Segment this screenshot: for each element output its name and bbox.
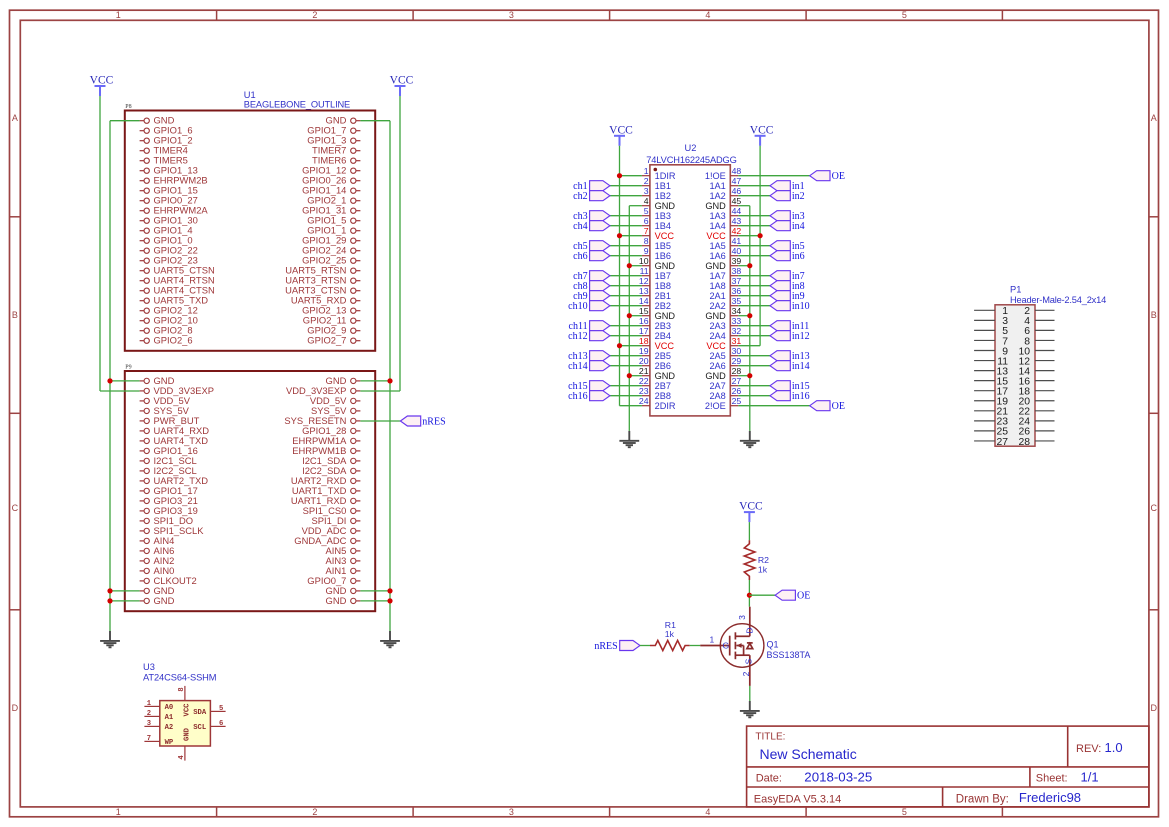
svg-text:3: 3 xyxy=(644,186,649,196)
svg-text:39: 39 xyxy=(732,256,742,266)
svg-text:1B8: 1B8 xyxy=(655,281,671,291)
P1 pin 16 xyxy=(1018,376,1054,387)
net label ch15 xyxy=(568,381,610,392)
U2 left pin 20 2B6 xyxy=(639,356,671,371)
svg-text:2A7: 2A7 xyxy=(709,381,725,391)
wire U2 VCC rail to pin 31 VCC xyxy=(738,345,760,347)
power flag VCC right of U2 xyxy=(750,124,774,146)
svg-text:32: 32 xyxy=(732,326,742,336)
U2 right pin 36 2A1 xyxy=(709,286,741,301)
svg-text:1B7: 1B7 xyxy=(655,271,671,281)
U2 pin-1 indicator dot xyxy=(654,168,658,172)
wire ch8 to U2 pin 12 xyxy=(610,285,642,287)
wire nRES flag to R1 xyxy=(640,645,650,647)
U1 P8 right pin TIMER7 xyxy=(312,145,360,156)
P1 pin 10 xyxy=(1018,346,1054,357)
P1 pin 19 xyxy=(974,397,1008,408)
sheet column labels top xyxy=(116,10,907,20)
net label ch8 xyxy=(573,281,610,292)
svg-text:28: 28 xyxy=(732,366,742,376)
wire U2 VCC rail to pin 1 1DIR xyxy=(620,175,642,177)
U1 P9 right pin SYS_5V xyxy=(311,405,360,416)
U1 P8 right pin GPIO2_11 xyxy=(303,315,361,326)
U2 left pin 10 GND xyxy=(639,256,675,271)
wire left GND rail vertical xyxy=(109,121,111,631)
svg-text:1.0: 1.0 xyxy=(1105,740,1123,755)
svg-text:1A8: 1A8 xyxy=(709,281,725,291)
svg-text:1B2: 1B2 xyxy=(655,191,671,201)
wire P8 left GND pin to left GND rail xyxy=(110,120,140,122)
svg-text:VCC: VCC xyxy=(183,703,191,717)
svg-text:GND: GND xyxy=(183,727,191,741)
svg-text:P8: P8 xyxy=(125,104,131,110)
svg-text:WP: WP xyxy=(165,739,174,747)
wire U2 GND rail to pin 15 xyxy=(629,315,642,317)
U3 left pin 7 WP xyxy=(144,735,174,747)
P1 pin 1 xyxy=(974,306,1008,317)
svg-text:5: 5 xyxy=(902,10,907,20)
svg-text:18: 18 xyxy=(639,336,649,346)
svg-text:29: 29 xyxy=(732,356,742,366)
U2 right pin 40 1A6 xyxy=(709,246,741,261)
wire right GND rail vertical xyxy=(389,121,391,631)
svg-text:2: 2 xyxy=(147,710,151,718)
title block row divider 2 xyxy=(747,786,1149,788)
U1 P8 left pin GPIO2_8 xyxy=(140,325,193,336)
U1 P8 right pin GPIO1_1 xyxy=(307,225,360,236)
U1 P9 right pin EHRPWM1A xyxy=(292,435,360,446)
net label ch13 xyxy=(568,351,610,362)
U2 right pin 47 1A1 xyxy=(709,176,741,191)
svg-text:25: 25 xyxy=(732,396,742,406)
wire in9 from U2 pin 36 xyxy=(738,295,770,297)
svg-text:2A6: 2A6 xyxy=(709,361,725,371)
svg-text:GND: GND xyxy=(655,311,676,321)
U2 right pin 30 2A5 xyxy=(709,346,741,361)
U1 P9 right pin VDD_5V xyxy=(310,395,360,406)
wire ch1 to U2 pin 2 xyxy=(610,185,642,187)
P1 pin 21 xyxy=(974,407,1008,418)
sheet border row ticks left xyxy=(10,217,21,610)
svg-text:GPIO2_7: GPIO2_7 xyxy=(307,335,346,346)
U1 P9 right pin GPIO0_7 xyxy=(307,575,360,586)
U1 P9 right pin EHRPWM1B xyxy=(292,445,360,456)
U1 P9 right pin VDD_ADC xyxy=(302,525,361,536)
U1 P8 right pin GPIO1_12 xyxy=(302,165,360,176)
wire in14 from U2 pin 29 xyxy=(738,365,770,367)
svg-text:2018-03-25: 2018-03-25 xyxy=(804,770,872,785)
svg-text:10: 10 xyxy=(639,256,649,266)
svg-text:VCC: VCC xyxy=(609,124,633,136)
junction U2 right GND rail at pin 34 xyxy=(747,313,752,318)
net label in2 xyxy=(770,191,805,202)
wire left GND rail to P9 left GND pin xyxy=(110,380,140,382)
U1 P9 left pin SPI1_SCLK xyxy=(140,525,205,536)
U1 P8 left pin GPIO1_15 xyxy=(140,185,198,196)
U2 right pin 48 1!OE xyxy=(705,166,742,181)
P1 pin 28 xyxy=(1018,437,1054,448)
svg-text:1B6: 1B6 xyxy=(655,251,671,261)
wire in13 from U2 pin 30 xyxy=(738,355,770,357)
svg-text:1: 1 xyxy=(116,807,121,817)
net label OE bottom xyxy=(810,401,845,412)
title block DrawnBy divider xyxy=(942,787,944,807)
wire VCC right rail down to P9 VDD_3V3EXP row xyxy=(399,96,401,391)
net label in10 xyxy=(770,301,810,312)
U1 P8 left pin GPIO1_2 xyxy=(140,135,193,146)
svg-text:GND: GND xyxy=(655,201,676,211)
svg-text:1!OE: 1!OE xyxy=(705,171,726,181)
junction right GND rail at P9 GND 45 xyxy=(387,588,392,593)
U1 P8 left pin EHRPWM2B xyxy=(140,175,208,186)
wire U2 GND rail to pin 34 xyxy=(738,315,750,317)
svg-text:2: 2 xyxy=(741,671,751,676)
sheet row labels left xyxy=(12,113,19,713)
net flag nRES at U1 SYS_RESETN xyxy=(360,420,400,422)
P1 pin 24 xyxy=(1018,417,1054,428)
junction U2 right VCC rail at pin 42 xyxy=(758,233,763,238)
svg-text:38: 38 xyxy=(732,266,742,276)
U2 left pin 5 1B3 xyxy=(642,206,671,221)
U1 P8 right pin UART3_RTSN xyxy=(285,275,360,286)
svg-text:VCC: VCC xyxy=(90,75,114,87)
wire in4 from U2 pin 43 xyxy=(738,225,770,227)
svg-text:VCC: VCC xyxy=(706,341,726,351)
svg-text:7: 7 xyxy=(644,226,649,236)
svg-text:48: 48 xyxy=(732,166,742,176)
net label in8 xyxy=(770,281,805,292)
wire ch13 to U2 pin 19 xyxy=(610,355,642,357)
U1 P9 right pin UART1_TXD xyxy=(292,485,361,496)
wire U2 pin 48 1!OE to OE flag xyxy=(738,175,809,177)
net label ch11 xyxy=(569,321,610,332)
U2 right pin 28 GND xyxy=(705,366,741,381)
svg-text:2A5: 2A5 xyxy=(709,351,725,361)
svg-text:21: 21 xyxy=(639,366,649,376)
svg-text:2A2: 2A2 xyxy=(709,301,725,311)
U3 bottom pin 4 GND xyxy=(178,727,191,760)
svg-text:in12: in12 xyxy=(792,331,810,342)
svg-text:1: 1 xyxy=(147,700,152,708)
svg-text:U2: U2 xyxy=(685,143,697,153)
wire ch6 to U2 pin 9 xyxy=(610,255,642,257)
net label OE at Q1 xyxy=(775,590,810,601)
ground symbol below Q1 xyxy=(740,701,760,717)
svg-text:GND: GND xyxy=(655,261,676,271)
svg-text:31: 31 xyxy=(732,336,742,346)
net label in5 xyxy=(770,241,805,252)
svg-text:1B5: 1B5 xyxy=(655,241,671,251)
wire U2 VCC rail to pin 42 VCC xyxy=(738,235,760,237)
U1 P9 right pin I2C1_SDA xyxy=(302,455,360,466)
svg-text:in4: in4 xyxy=(792,221,805,232)
svg-text:ch4: ch4 xyxy=(573,221,587,232)
wire ch5 to U2 pin 8 xyxy=(610,245,642,247)
net label ch3 xyxy=(573,211,610,222)
wire in2 from U2 pin 46 xyxy=(738,195,770,197)
svg-text:GND: GND xyxy=(655,371,676,381)
P1 pin 27 xyxy=(974,437,1008,448)
U1 P9 left pin GPIO3_21 xyxy=(140,495,198,506)
wire U2 pin 25 2!OE to OE flag xyxy=(738,405,809,407)
svg-text:6: 6 xyxy=(219,720,223,728)
U1 P8 right pin GPIO2_25 xyxy=(302,255,360,266)
svg-text:A0: A0 xyxy=(165,704,174,712)
net label ch2 xyxy=(573,191,610,202)
net label ch6 xyxy=(573,251,610,262)
svg-text:VCC: VCC xyxy=(706,231,726,241)
U2 right pin 29 2A6 xyxy=(709,356,741,371)
power flag VCC above R2 xyxy=(739,501,763,522)
P1 pin 11 xyxy=(974,356,1008,367)
svg-text:in6: in6 xyxy=(792,251,805,262)
svg-text:GND: GND xyxy=(705,261,726,271)
resistor R1 xyxy=(650,640,690,650)
svg-text:8: 8 xyxy=(178,687,186,691)
wire ch9 to U2 pin 13 xyxy=(610,295,642,297)
svg-text:4: 4 xyxy=(178,755,186,760)
wire U2 GND rail to pin 4 xyxy=(629,205,642,207)
svg-text:1k: 1k xyxy=(665,629,675,639)
U2 right pin 46 1A2 xyxy=(709,186,741,201)
svg-text:8: 8 xyxy=(644,236,649,246)
svg-text:in2: in2 xyxy=(792,191,805,202)
svg-text:27: 27 xyxy=(996,437,1008,448)
U2 left pin 8 1B5 xyxy=(642,236,671,251)
svg-text:22: 22 xyxy=(639,376,649,386)
svg-text:4: 4 xyxy=(705,10,710,20)
svg-text:ch16: ch16 xyxy=(568,391,587,402)
svg-text:74LVCH162245ADGG: 74LVCH162245ADGG xyxy=(646,155,736,165)
title block REV divider xyxy=(1067,726,1069,767)
U1 P9 right pin AIN3 xyxy=(326,555,361,566)
svg-text:46: 46 xyxy=(732,186,742,196)
svg-text:D: D xyxy=(12,703,19,713)
U2 right pin 39 GND xyxy=(705,256,741,271)
U1 P9 left pin VDD_3V3EXP xyxy=(140,385,214,396)
U1 P8 left pin GPIO1_30 xyxy=(140,215,198,226)
U1 P9 left pin GND xyxy=(140,375,175,386)
svg-text:OE: OE xyxy=(832,171,845,182)
wire ch4 to U2 pin 6 xyxy=(610,225,642,227)
U2 right pin 32 2A4 xyxy=(709,326,741,341)
svg-text:26: 26 xyxy=(732,386,742,396)
U2 left pin 13 2B1 xyxy=(639,286,671,301)
svg-text:Frederic98: Frederic98 xyxy=(1019,790,1081,805)
svg-text:14: 14 xyxy=(639,296,649,306)
svg-text:7: 7 xyxy=(147,735,151,743)
svg-text:REV:: REV: xyxy=(1076,743,1101,755)
U1 P8 left pin GPIO1_6 xyxy=(140,125,193,136)
U2 right pin 38 1A7 xyxy=(709,266,741,281)
power flag VCC right of U1 xyxy=(390,75,414,97)
svg-text:VCC: VCC xyxy=(739,501,763,513)
wire in10 from U2 pin 35 xyxy=(738,305,770,307)
U2 left pin 19 2B5 xyxy=(639,346,671,361)
wire ch14 to U2 pin 20 xyxy=(610,365,642,367)
wire VCC to R2 top xyxy=(748,522,750,540)
svg-text:ch6: ch6 xyxy=(573,251,587,262)
net label in9 xyxy=(770,291,805,302)
title block outline xyxy=(747,726,1149,807)
svg-text:6: 6 xyxy=(644,216,649,226)
svg-text:3: 3 xyxy=(509,10,514,20)
U1 P8 right pin GPIO2_13 xyxy=(302,305,360,316)
wire U2 GND rail to pin 10 xyxy=(629,265,642,267)
U1 P9 right pin GND xyxy=(326,585,361,596)
U1 P8 right pin GPIO1_29 xyxy=(302,235,360,246)
P1 pin 25 xyxy=(974,427,1008,438)
svg-text:2A1: 2A1 xyxy=(709,291,725,301)
svg-text:1A1: 1A1 xyxy=(709,181,725,191)
svg-text:3: 3 xyxy=(147,720,151,728)
svg-text:4: 4 xyxy=(705,807,710,817)
svg-text:New Schematic: New Schematic xyxy=(760,746,857,762)
svg-text:VCC: VCC xyxy=(655,231,675,241)
U2 left pin 6 1B4 xyxy=(642,216,671,231)
ground symbol below U2 left xyxy=(619,431,639,447)
net label in16 xyxy=(770,391,810,402)
svg-text:P1: P1 xyxy=(1010,285,1021,295)
junction U2 left GND rail at pin 10 xyxy=(627,263,632,268)
P1 pin 13 xyxy=(974,366,1008,377)
svg-text:17: 17 xyxy=(639,326,649,336)
svg-text:A2: A2 xyxy=(165,724,174,732)
U1 P9 right pin SPI1_DI xyxy=(311,515,360,526)
svg-text:1DIR: 1DIR xyxy=(655,171,676,181)
U2 left pin 24 2DIR xyxy=(639,396,676,411)
svg-text:3: 3 xyxy=(509,807,514,817)
wire U2 left GND rail vertical xyxy=(628,206,630,431)
sheet border column ticks bottom xyxy=(217,807,1003,817)
U1 P8 right pin GPIO2_7 xyxy=(307,335,360,346)
wire ch7 to U2 pin 11 xyxy=(610,275,642,277)
svg-text:BSS138TA: BSS138TA xyxy=(767,650,811,660)
svg-text:ch10: ch10 xyxy=(568,301,587,312)
U1 P9 right pin GND xyxy=(326,595,361,606)
svg-text:41: 41 xyxy=(732,236,742,246)
U3 left pin 2 A1 xyxy=(144,710,174,722)
U3 top pin 8 VCC xyxy=(178,686,191,717)
U1 P9 left pin GPIO1_17 xyxy=(140,485,198,496)
wire in3 from U2 pin 44 xyxy=(738,215,770,217)
svg-text:36: 36 xyxy=(732,286,742,296)
wire node to OE flag xyxy=(749,594,775,596)
wire VCC left rail down to P9 VDD_3V3EXP row xyxy=(99,96,101,391)
wire right GND rail to P9 right GND pin xyxy=(360,380,390,382)
U2 left pin 7 VCC xyxy=(642,226,674,241)
wire right GND rail to P9 right GND pin 45 xyxy=(360,590,390,592)
U1 P9 left pin I2C2_SCL xyxy=(140,465,197,476)
net label nRES at U1 xyxy=(400,416,445,427)
svg-text:B: B xyxy=(12,310,18,320)
U1 P9 right pin GND xyxy=(326,375,361,386)
U2 right pin 35 2A2 xyxy=(709,296,741,311)
U3 right pin 6 SCL xyxy=(193,720,225,732)
svg-text:5: 5 xyxy=(219,705,223,713)
U1 P8 right pin GPIO1_3 xyxy=(307,135,360,146)
svg-text:4: 4 xyxy=(644,196,649,206)
sheet border row ticks right xyxy=(1149,217,1159,610)
svg-text:1B4: 1B4 xyxy=(655,221,671,231)
junction left GND rail at P9 GND 45 xyxy=(107,588,112,593)
wire VCC rail to P9 left pin VDD_3V3EXP xyxy=(100,390,140,392)
P1 pin 15 xyxy=(974,376,1008,387)
U1 P8 right pin GPIO0_26 xyxy=(302,175,360,186)
P1 pin 3 xyxy=(974,316,1008,327)
svg-text:44: 44 xyxy=(732,206,742,216)
svg-text:2B7: 2B7 xyxy=(655,381,671,391)
P1 pin 7 xyxy=(974,336,1008,347)
svg-text:A: A xyxy=(1151,113,1157,123)
net label OE top xyxy=(810,171,845,182)
U1 P8 right pin GPIO2_1 xyxy=(307,195,360,206)
svg-text:OE: OE xyxy=(797,591,810,602)
svg-text:5: 5 xyxy=(644,206,649,216)
wire U2 VCC rail to pin 24 2DIR xyxy=(620,405,642,407)
svg-text:35: 35 xyxy=(732,296,742,306)
junction R2-OE-drain node xyxy=(747,593,752,598)
U2 right pin 31 VCC xyxy=(706,336,741,351)
net label ch12 xyxy=(568,331,610,342)
U1 P8 right pin TIMER6 xyxy=(312,155,360,166)
svg-text:1: 1 xyxy=(644,166,649,176)
P1 pin 14 xyxy=(1018,366,1054,377)
junction right GND rail at P9 GND xyxy=(387,378,392,383)
svg-text:GND: GND xyxy=(705,201,726,211)
P1 pin 8 xyxy=(1024,336,1054,347)
svg-text:43: 43 xyxy=(732,216,742,226)
U2 left pin 3 1B2 xyxy=(642,186,671,201)
svg-text:GPIO2_6: GPIO2_6 xyxy=(154,335,193,346)
U1 P9 left pin GND xyxy=(140,595,175,606)
P1 pin 2 xyxy=(1024,306,1054,317)
U2 left pin 17 2B4 xyxy=(639,326,671,341)
U1 P8 left pin TIMER5 xyxy=(140,155,188,166)
U2 right pin 26 2A8 xyxy=(709,386,741,401)
svg-text:5: 5 xyxy=(902,807,907,817)
P1 pin 17 xyxy=(974,387,1008,398)
svg-text:2B1: 2B1 xyxy=(655,291,671,301)
U2 left pin 15 GND xyxy=(639,306,675,321)
svg-text:U3: U3 xyxy=(143,662,155,672)
U2 body outline xyxy=(650,165,730,416)
svg-text:27: 27 xyxy=(732,376,742,386)
U2 left pin 16 2B3 xyxy=(639,316,671,331)
U2 left pin 1 1DIR xyxy=(642,166,676,181)
svg-text:S: S xyxy=(744,658,754,664)
U1 P8 right pin GPIO1_31 xyxy=(302,205,360,216)
U2 left pin 23 2B8 xyxy=(639,386,671,401)
U1 P8 left pin GPIO1_0 xyxy=(140,235,193,246)
P1 pin 22 xyxy=(1018,407,1054,418)
svg-text:15: 15 xyxy=(639,306,649,316)
U2 right pin 34 GND xyxy=(705,306,741,321)
wire in16 from U2 pin 26 xyxy=(738,395,770,397)
wire left GND rail to P9 left GND pin 46 xyxy=(110,600,140,602)
transistor Q1 BSS138TA symbol xyxy=(700,607,764,686)
svg-text:ch14: ch14 xyxy=(568,361,587,372)
U2 left pin 12 1B8 xyxy=(639,276,671,291)
svg-text:D: D xyxy=(744,627,754,633)
junction U2 left GND rail at pin 15 xyxy=(627,313,632,318)
svg-text:2B2: 2B2 xyxy=(655,301,671,311)
wire ch11 to U2 pin 16 xyxy=(610,325,642,327)
U2 left pin 18 VCC xyxy=(639,336,674,351)
net label in13 xyxy=(770,351,810,362)
wire ch12 to U2 pin 17 xyxy=(610,335,642,337)
svg-text:1A5: 1A5 xyxy=(709,241,725,251)
